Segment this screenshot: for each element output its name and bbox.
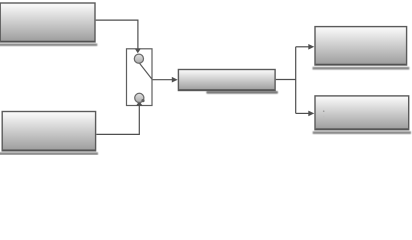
wire W1 from B1 to switch top input (96, 20, 138, 48)
block B5 bottom edge accent (316, 128, 408, 130)
switch SW1 top contact circle (134, 54, 143, 63)
block B3 bottom edge accent (179, 89, 274, 91)
shadow bar of block B3 (206, 91, 278, 94)
wire W6 bottom branch to B5 (296, 112, 309, 114)
wire W4 vertical branch segment (295, 47, 297, 114)
wire W4 from B3 output to branch junction (276, 79, 296, 81)
tiny speck inside B5 (323, 110, 325, 112)
arrowhead of W2 (pointing up into switch) (136, 101, 143, 106)
block B1 (top-left source block) (0, 3, 95, 42)
shadow of block B2 (0, 152, 98, 155)
arrowhead of W1 (pointing down into switch) (135, 49, 141, 54)
manual switch SW1 body (127, 49, 153, 106)
shadow of block B1 (0, 44, 97, 47)
tiny speck 2 inside B5 (323, 116, 324, 117)
block B4 (top-right sink block) (315, 27, 407, 65)
wire W2 from B2 to switch bottom input (96, 106, 139, 135)
switch SW1 lever pivot mark (141, 99, 144, 102)
arrowhead of W6 (into bottom-right block) (308, 111, 314, 117)
arrowhead of W5 (into top-right block) (308, 44, 314, 50)
arrowhead of W3 (pointing right into center block) (172, 77, 178, 83)
block B1 bottom edge accent (1, 40, 95, 42)
shadow of block B5 (313, 131, 411, 134)
block B2 bottom edge accent (3, 149, 95, 151)
shadow of block B4 (313, 67, 410, 70)
switch SW1 lever (diagonal from top contact to output) (140, 63, 153, 79)
block B3 (center block) (178, 70, 275, 91)
wire W3 from switch output to center block (153, 79, 173, 81)
switch SW1 bottom contact circle (135, 93, 144, 102)
block B5 (bottom-right sink block) (315, 96, 409, 130)
block B4 bottom edge accent (316, 63, 406, 65)
block B2 (bottom-left source block) (2, 112, 95, 151)
wire W5 top branch to B4 (296, 46, 309, 48)
